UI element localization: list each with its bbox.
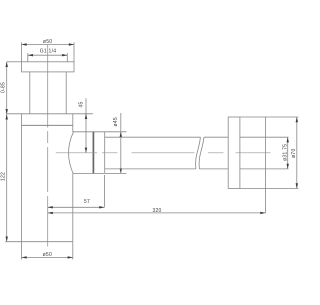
dimension 45: line — [85, 98, 87, 153]
dimension ø70: arrows — [296, 117, 298, 189]
dimension 57: line — [48, 175, 105, 207]
outlet wall flange — [228, 117, 240, 189]
svg-text:57: 57 — [84, 199, 90, 205]
inlet tube — [30, 72, 66, 114]
trap cup outline — [5, 114, 93, 242]
dimension ø70: extension lines — [240, 117, 298, 189]
svg-text:ø45: ø45 — [113, 117, 119, 126]
svg-text:122: 122 — [1, 172, 7, 181]
dimension ø31.75: line — [287, 137, 289, 169]
cup-to-boss intersection curve — [69, 132, 74, 174]
dimension G1 1/4: lines — [28, 53, 68, 62]
svg-text:ø50: ø50 — [43, 252, 52, 258]
dimension 0-85 / 122: dimension line — [7, 62, 22, 242]
pipe centerline — [56, 152, 271, 154]
outlet boss — [73, 132, 105, 174]
inlet wall flange — [22, 62, 75, 72]
dimension ø45: arrows — [120, 132, 122, 174]
cup joint line — [22, 124, 73, 126]
dimension 45: arrows — [85, 114, 87, 153]
dimension 0-85 / 122: arrows — [6, 62, 8, 242]
pipe break symbol — [196, 137, 204, 169]
svg-text:0-85: 0-85 — [1, 82, 7, 93]
svg-text:ø50: ø50 — [43, 39, 52, 45]
svg-text:ø31.75: ø31.75 — [282, 144, 288, 161]
dimension ø31.75: arrows — [287, 137, 289, 169]
compression nut — [93, 132, 104, 174]
dimension G1 1/4: arrows — [28, 54, 68, 56]
dimension ø45: extension lines — [105, 113, 127, 173]
svg-text:320: 320 — [152, 208, 161, 214]
wall line — [265, 117, 267, 213]
vertical centerline — [47, 45, 49, 247]
svg-text:45: 45 — [79, 101, 85, 107]
svg-text:ø70: ø70 — [291, 149, 297, 158]
dimension 57: arrows — [48, 206, 105, 208]
dimension ø50 top: extension lines — [22, 42, 75, 62]
dimension 320: arrows — [48, 212, 266, 214]
outlet pipe walls — [105, 137, 289, 169]
dimension 320: line — [48, 212, 266, 214]
dimension ø50 bottom: arrows — [22, 256, 73, 258]
dimension ø50 top: arrows — [22, 43, 75, 45]
dimension ø50 bottom: extension lines — [22, 242, 73, 260]
